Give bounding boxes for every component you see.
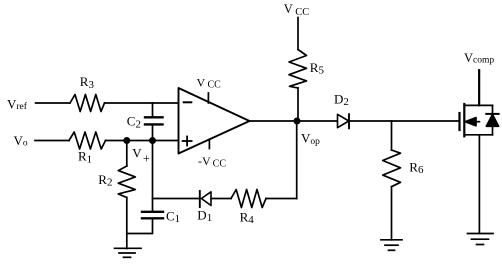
- svg-text:R4: R4: [240, 209, 255, 226]
- svg-text:Vcomp: Vcomp: [464, 51, 494, 66]
- svg-text:R1: R1: [78, 149, 92, 166]
- svg-text:C1: C1: [166, 209, 180, 226]
- svg-text:V+: V+: [132, 146, 150, 166]
- svg-text:D2: D2: [334, 92, 349, 109]
- svg-text:C2: C2: [127, 114, 141, 131]
- svg-text:R2: R2: [98, 172, 112, 188]
- svg-text:Vref: Vref: [7, 96, 28, 112]
- svg-text:Vo: Vo: [14, 133, 28, 149]
- svg-text:D1: D1: [197, 208, 212, 224]
- svg-text:-VCC: -VCC: [198, 154, 226, 169]
- svg-text:R5: R5: [310, 60, 325, 77]
- svg-text:VCC: VCC: [284, 2, 309, 18]
- svg-text:Vop: Vop: [301, 130, 320, 147]
- svg-text:R6: R6: [409, 160, 424, 177]
- svg-text:VCC: VCC: [197, 75, 222, 90]
- svg-text:R3: R3: [80, 74, 95, 91]
